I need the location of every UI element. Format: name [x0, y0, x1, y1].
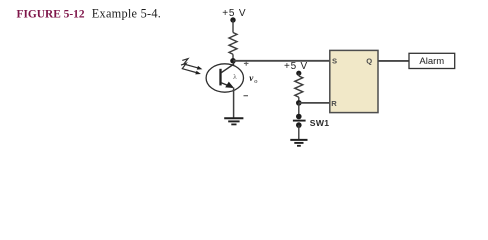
wire: switch to ground: [298, 125, 300, 139]
svg-text:Alarm: Alarm: [419, 56, 444, 67]
node: switch-branch supply dot: [296, 71, 301, 76]
wire: emitter down to ground: [233, 88, 235, 118]
svg-text:S: S: [332, 56, 337, 65]
svg-text:SW1: SW1: [310, 118, 330, 128]
light arrow 1: [182, 59, 197, 68]
svg-text:Q: Q: [366, 57, 372, 66]
transistor Q1 base bar: [219, 69, 221, 86]
wire: R2 to R-input junction: [298, 97, 300, 103]
wire: latch Q output to alarm: [378, 60, 409, 62]
transistor Q1 (phototransistor) body circle: [206, 64, 243, 92]
svg-text:FIGURE 5-12: FIGURE 5-12: [17, 9, 85, 21]
node: collector junction: [230, 58, 236, 64]
resistor R2: [295, 76, 303, 97]
wire: junction down to switch: [298, 103, 300, 117]
transistor Q1 emitter lead with arrow: [221, 83, 233, 88]
switch SW1 bottom contact: [296, 122, 302, 128]
svg-text:+5 V: +5 V: [222, 8, 246, 19]
latch U1 (S-R latch box): [330, 50, 378, 112]
node: R-input junction: [296, 100, 302, 106]
wire: collector node to latch S input: [233, 60, 330, 62]
ground (under Q1): [224, 118, 243, 124]
wire: supply dot to resistor R2: [298, 73, 300, 76]
alarm block: [409, 53, 455, 68]
wire: junction to latch R input: [299, 102, 330, 104]
minus sign (vo polarity): [244, 95, 249, 97]
plus sign (vo polarity): [244, 61, 249, 66]
svg-text:λ: λ: [233, 72, 237, 81]
switch SW1 bar: [293, 120, 306, 122]
svg-text:R: R: [331, 99, 337, 108]
svg-text:o: o: [254, 78, 257, 85]
wire: R1 to collector node: [232, 54, 234, 61]
ground (under SW1): [290, 140, 307, 146]
node: supply terminal dot: [230, 17, 235, 22]
svg-text:Example 5-4.: Example 5-4.: [92, 7, 161, 21]
resistor R1: [229, 33, 237, 55]
switch SW1 top contact: [296, 114, 302, 120]
wire: supply dot to resistor R1: [232, 20, 234, 33]
light arrow 2: [181, 63, 196, 72]
transistor Q1 collector lead: [221, 61, 234, 73]
svg-text:+5 V: +5 V: [284, 61, 308, 72]
